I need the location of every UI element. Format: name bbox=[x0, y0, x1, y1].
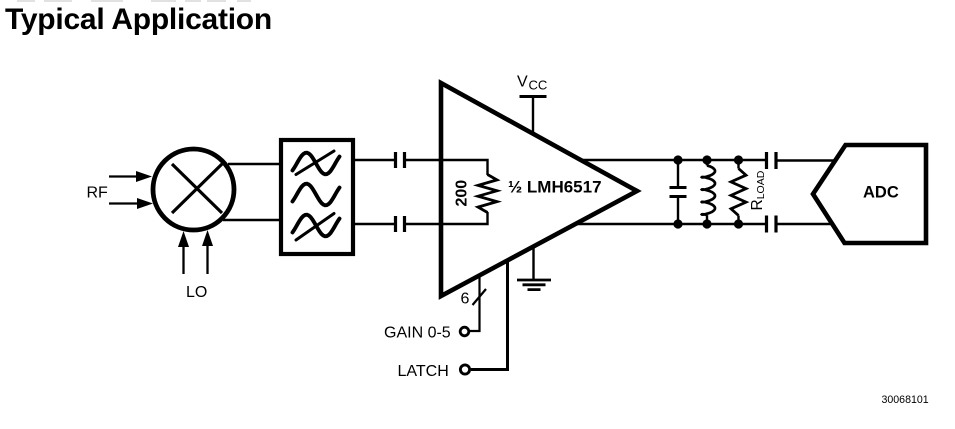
wire filter to C1 bbox=[353, 159, 394, 161]
filter wave bottom slash bbox=[296, 214, 334, 241]
wire amp to ground bbox=[532, 247, 534, 280]
filter wave middle bbox=[293, 184, 340, 206]
title Typical Application bbox=[5, 3, 272, 36]
mixer circle bbox=[153, 149, 234, 230]
RF arrow top bbox=[109, 171, 152, 182]
label 200 bbox=[454, 180, 471, 207]
svg-text:LO: LO bbox=[186, 284, 207, 301]
label GAIN 0-5 bbox=[384, 325, 451, 342]
svg-text:CC: CC bbox=[529, 78, 548, 93]
wire C2 to amp bbox=[406, 223, 443, 225]
junction dots L1 bbox=[702, 155, 711, 228]
svg-text:30068101: 30068101 bbox=[882, 394, 929, 406]
svg-text:ADC: ADC bbox=[863, 184, 899, 202]
RF arrow bottom bbox=[109, 198, 153, 209]
svg-text:200: 200 bbox=[454, 180, 471, 207]
resistor 200 (input termination) bbox=[478, 175, 497, 213]
svg-text:½ LMH6517: ½ LMH6517 bbox=[508, 178, 602, 197]
wire LATCH bbox=[471, 262, 508, 370]
label 1/2 LMH6517 bbox=[508, 178, 602, 197]
svg-text:6: 6 bbox=[461, 291, 470, 308]
wire VCC to amp bbox=[532, 97, 534, 135]
scan artifact strip bbox=[17, 0, 251, 2]
wire C1 to amp bbox=[406, 159, 443, 161]
wire mixer to filter top bbox=[228, 163, 281, 165]
filter wave bottom bbox=[293, 215, 340, 237]
mixer X bbox=[172, 164, 222, 213]
wire output top rail bbox=[581, 159, 766, 161]
label LO bbox=[186, 284, 207, 301]
wire C4 to ADC bbox=[777, 159, 835, 161]
svg-text:V: V bbox=[517, 74, 528, 91]
wire C5 to ADC bbox=[777, 223, 833, 225]
terminal GAIN circle bbox=[460, 327, 469, 336]
LO arrow left bbox=[178, 231, 189, 274]
power VCC label bbox=[517, 74, 547, 93]
wire filter to C2 bbox=[353, 223, 394, 225]
svg-text:Typical Application: Typical Application bbox=[5, 3, 272, 36]
wire input bottom inside amp bbox=[441, 212, 488, 224]
wire input top inside amp bbox=[441, 160, 488, 175]
resistor RLOAD bbox=[731, 160, 746, 224]
filter wave top bbox=[293, 153, 340, 175]
svg-text:GAIN 0-5: GAIN 0-5 bbox=[384, 325, 451, 342]
capacitor C1 (top input) bbox=[396, 152, 405, 168]
junction dots C3 bbox=[673, 155, 682, 228]
bus slash bbox=[473, 289, 487, 305]
wire GAIN bus bbox=[470, 276, 480, 331]
label RLOAD bbox=[749, 170, 767, 210]
label LATCH bbox=[398, 363, 449, 380]
VCC bar bbox=[520, 95, 547, 98]
inductor L1 bbox=[702, 160, 715, 224]
label ADC bbox=[863, 184, 899, 202]
filter box bbox=[281, 140, 353, 254]
ground bbox=[517, 280, 551, 290]
wire output bottom rail bbox=[576, 223, 766, 225]
svg-text:LATCH: LATCH bbox=[398, 363, 449, 380]
label RF bbox=[87, 185, 109, 202]
capacitor C3 (shunt) bbox=[670, 160, 687, 224]
terminal LATCH circle bbox=[460, 365, 469, 374]
op-amp U1 triangle bbox=[441, 83, 637, 296]
capacitor C4 (top coupling) bbox=[767, 152, 777, 169]
capacitor C5 (bottom coupling) bbox=[767, 216, 777, 233]
label 6 bbox=[461, 291, 470, 308]
ADC block bbox=[813, 145, 926, 243]
svg-text:RF: RF bbox=[87, 185, 109, 202]
figure number 30068101 bbox=[882, 394, 929, 406]
junction dots RLOAD bbox=[734, 155, 743, 228]
LO arrow right bbox=[202, 230, 213, 274]
wire mixer to filter bottom bbox=[223, 219, 281, 221]
capacitor C2 (bottom input) bbox=[396, 216, 405, 232]
filter wave top slash bbox=[296, 151, 334, 175]
